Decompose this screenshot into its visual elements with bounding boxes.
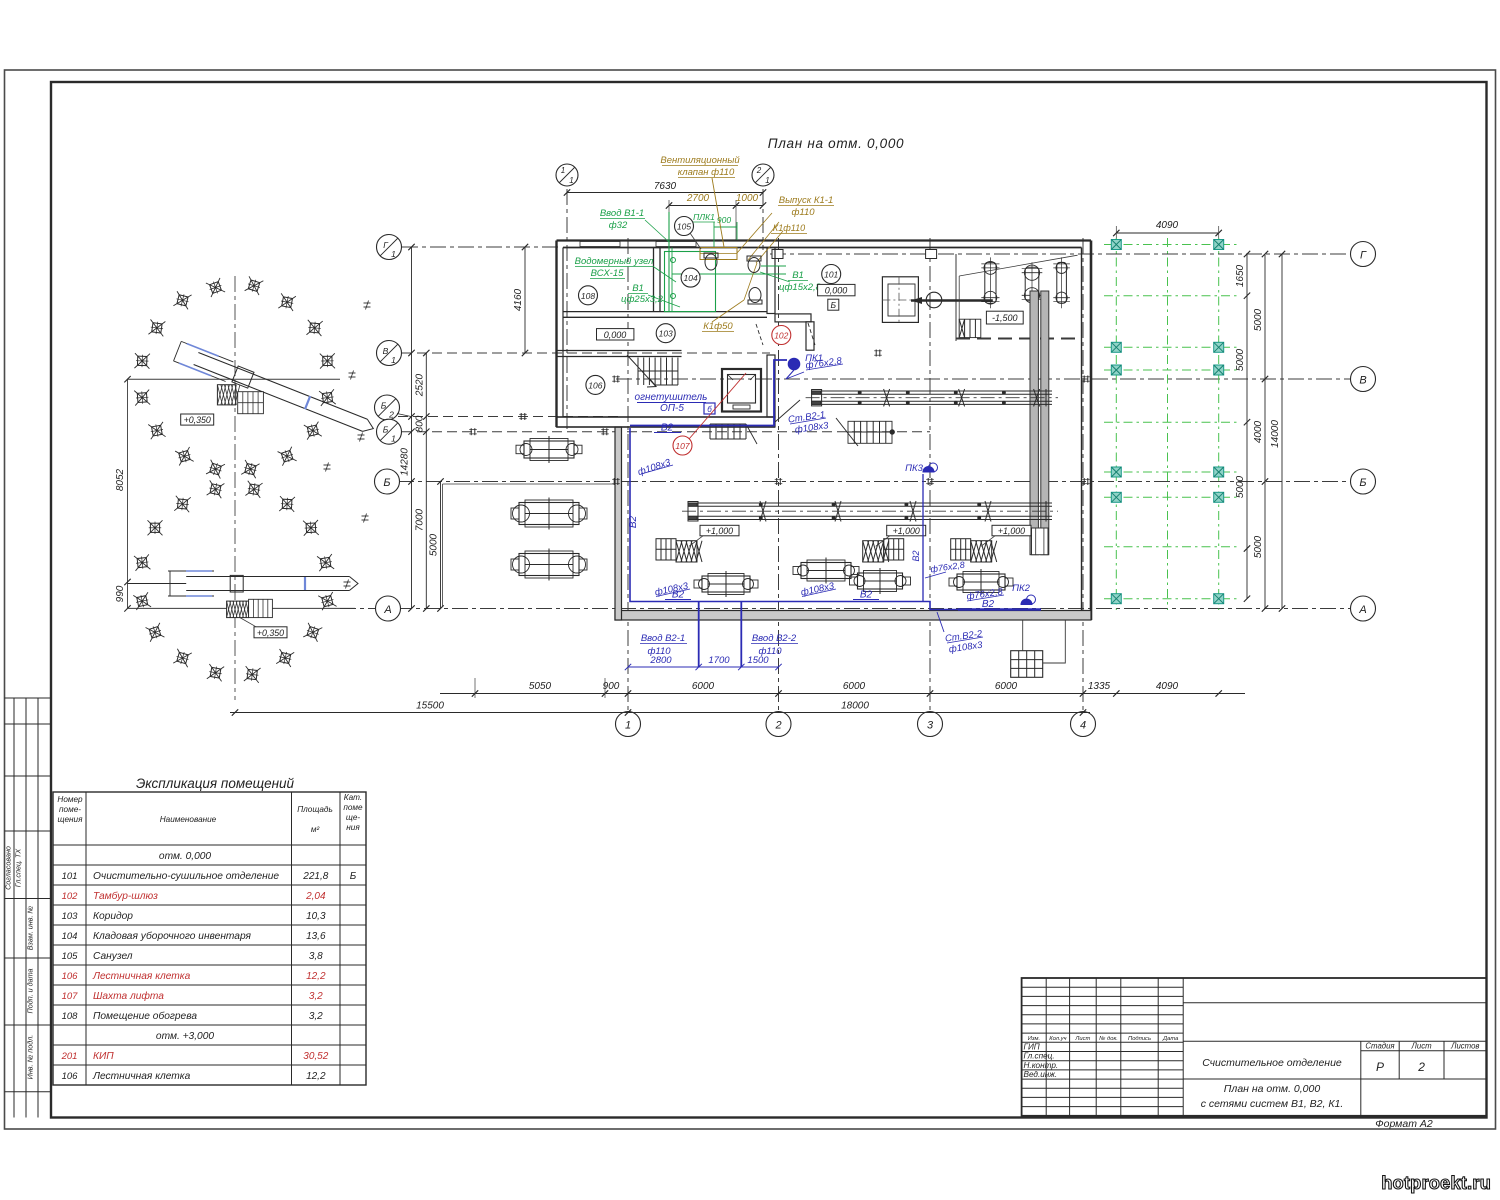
svg-text:221,8: 221,8	[302, 871, 328, 882]
svg-text:13,6: 13,6	[306, 931, 326, 942]
svg-text:Ввод В2-2: Ввод В2-2	[752, 633, 797, 644]
site boundary top	[128, 378, 341, 380]
svg-text:Выпуск К1-1: Выпуск К1-1	[779, 195, 834, 206]
svg-text:План на отм. 0,000: План на отм. 0,000	[1224, 1083, 1321, 1095]
svg-text:Подп. и дата: Подп. и дата	[26, 969, 35, 1014]
B2 entry Vvod B2-2	[740, 602, 742, 668]
svg-text:поме: поме	[343, 803, 363, 812]
elevator shaft 107	[722, 369, 761, 412]
svg-text:ВСХ-15: ВСХ-15	[591, 268, 625, 279]
svg-text:щения: щения	[58, 815, 84, 824]
svg-text:цф25х3,2: цф25х3,2	[621, 294, 664, 305]
svg-text:Инв. № подл.: Инв. № подл.	[26, 1035, 35, 1080]
category box Б	[828, 299, 839, 310]
svg-text:2520: 2520	[414, 373, 425, 397]
svg-text:2800: 2800	[649, 655, 672, 666]
svg-text:+0,350: +0,350	[257, 628, 284, 638]
PK3 hydrant	[923, 467, 934, 473]
interior wall 104/105 bottom	[563, 311, 767, 313]
apron edge line	[442, 484, 444, 607]
svg-text:Б: Б	[1359, 477, 1366, 489]
svg-text:6000: 6000	[843, 681, 866, 692]
svg-text:Кладовая уборочного инвентаря: Кладовая уборочного инвентаря	[93, 930, 252, 942]
svg-text:102: 102	[774, 331, 788, 341]
svg-text:Лестничная клетка: Лестничная клетка	[92, 1071, 191, 1082]
svg-text:106: 106	[62, 971, 79, 982]
horizontal axes	[770, 253, 1350, 255]
svg-text:-1,500: -1,500	[992, 313, 1018, 323]
svg-text:1: 1	[569, 176, 573, 185]
room circle 104	[681, 268, 700, 287]
svg-text:м²: м²	[311, 825, 320, 834]
conveyor band A (upper)	[806, 389, 1058, 406]
B1 green room outline	[665, 252, 716, 312]
top axis circles 1/1 2/1	[556, 164, 578, 186]
site center axis vertical	[234, 276, 236, 700]
svg-text:5000: 5000	[1235, 348, 1246, 371]
svg-text:Коридор: Коридор	[93, 911, 133, 922]
svg-text:Гл.спец.: Гл.спец.	[1024, 1052, 1055, 1061]
svg-text:План на отм. 0,000: План на отм. 0,000	[768, 136, 905, 151]
svg-text:Б: Б	[350, 871, 357, 882]
svg-text:1: 1	[391, 355, 396, 365]
svg-text:Счистительное отделение: Счистительное отделение	[1202, 1057, 1342, 1069]
machine: circle with arrow shaft	[926, 292, 942, 308]
svg-text:105: 105	[62, 951, 79, 962]
svg-text:ПК3: ПК3	[905, 463, 923, 474]
interior wall room 106 top	[557, 350, 682, 352]
svg-text:106: 106	[62, 1071, 79, 1082]
site hatched box bottom	[227, 601, 249, 618]
svg-text:Помещение обогрева: Помещение обогрева	[93, 1010, 197, 1022]
left attribute strip	[5, 698, 52, 1118]
svg-text:Подпись: Подпись	[1128, 1036, 1151, 1042]
building outer walls	[557, 239, 1092, 241]
room circle 105	[675, 217, 694, 236]
svg-text:1650: 1650	[1235, 264, 1246, 287]
tree symbols ring	[206, 278, 225, 297]
svg-text:поме-: поме-	[59, 805, 81, 814]
svg-text:Тамбур-шлюз: Тамбур-шлюз	[93, 890, 158, 902]
svg-text:ще-: ще-	[346, 813, 361, 822]
site boundary bottom	[128, 607, 356, 609]
svg-text:Наименование: Наименование	[160, 815, 217, 824]
stairwell 106 arrow	[627, 355, 656, 387]
svg-text:К1ф110: К1ф110	[773, 223, 805, 233]
svg-text:201: 201	[61, 1051, 78, 1062]
svg-text:4: 4	[1080, 720, 1086, 732]
mid-hall stair	[848, 421, 892, 443]
svg-text:Водомерный узел: Водомерный узел	[575, 256, 654, 267]
top dim 2700/1000	[669, 205, 763, 207]
svg-text:ОП-5: ОП-5	[660, 403, 684, 414]
svg-text:Лист: Лист	[1411, 1042, 1433, 1051]
inclined gallery conveyor	[174, 341, 378, 438]
svg-text:2700: 2700	[686, 193, 710, 204]
label +1.000 boxes	[700, 525, 739, 536]
platform boxes with hatch 2	[863, 539, 904, 562]
green grid node squares	[1111, 240, 1121, 250]
label +0.350 lower	[254, 627, 287, 638]
svg-text:104: 104	[62, 931, 78, 942]
svg-text:800: 800	[414, 415, 425, 432]
svg-text:Ввод В2-1: Ввод В2-1	[641, 633, 685, 644]
tambour wall stub vertical	[806, 322, 814, 350]
bottom dim chain 2 (15500/18000)	[230, 712, 1090, 714]
room circle 106	[586, 375, 605, 394]
right dim line 5000/4000/5000	[1264, 254, 1266, 609]
gallery stair grid	[238, 392, 264, 414]
B2 branch PK3	[922, 474, 924, 602]
svg-text:Ввод В1-1: Ввод В1-1	[600, 208, 644, 219]
svg-text:3,2: 3,2	[309, 1011, 323, 1022]
svg-text:2: 2	[756, 166, 762, 175]
svg-text:Н.контр.: Н.контр.	[1024, 1061, 1059, 1070]
machine: square apparatus	[882, 277, 918, 323]
svg-text:+1,000: +1,000	[706, 526, 733, 536]
svg-text:1700: 1700	[708, 655, 730, 666]
room circle 102	[772, 326, 791, 345]
svg-text:107: 107	[62, 991, 79, 1002]
bottom dim chain 1	[440, 693, 1245, 695]
svg-text:10,3: 10,3	[306, 911, 326, 922]
machine: vertical roller 2	[1025, 267, 1039, 301]
svg-text:Вед.инж.: Вед.инж.	[1024, 1070, 1058, 1079]
svg-text:4000: 4000	[1253, 420, 1264, 443]
room 105 leader	[690, 233, 701, 249]
room circle 103	[656, 324, 675, 343]
right dim line 1650/5000/5000	[1246, 254, 1248, 599]
svg-text:8052: 8052	[115, 468, 126, 491]
svg-text:7000: 7000	[414, 508, 425, 531]
svg-text:5050: 5050	[529, 681, 552, 692]
svg-text:2: 2	[774, 720, 781, 732]
svg-text:108: 108	[62, 1011, 79, 1022]
B2 entry Vvod B2-1	[698, 602, 700, 668]
conveyor band B (lower)	[682, 501, 1058, 522]
svg-text:+0,350: +0,350	[184, 415, 211, 425]
svg-text:с сетями систем В1, В2, К1.: с сетями систем В1, В2, К1.	[1201, 1098, 1344, 1110]
svg-text:4090: 4090	[1156, 681, 1179, 692]
svg-text:ПК2: ПК2	[1012, 583, 1030, 594]
explication table grid	[53, 792, 366, 1085]
svg-text:1500: 1500	[747, 655, 769, 666]
svg-text:101: 101	[62, 871, 78, 882]
svg-text:В: В	[383, 346, 389, 356]
svg-text:102: 102	[62, 891, 79, 902]
svg-text:В2: В2	[860, 590, 873, 601]
left dim line 5000	[440, 482, 442, 609]
svg-text:hotproekt.ru: hotproekt.ru	[1381, 1173, 1491, 1193]
machine: vertical roller 1	[985, 262, 996, 303]
svg-text:клапан ф110: клапан ф110	[678, 167, 735, 178]
svg-text:12,2: 12,2	[306, 1071, 326, 1082]
svg-text:ния: ния	[346, 823, 360, 832]
left axis circles	[377, 235, 402, 260]
stairwell 106 treads	[638, 358, 678, 386]
toilet 2	[747, 256, 761, 273]
svg-text:2,04: 2,04	[305, 891, 326, 902]
room circle 107	[673, 436, 692, 455]
vodomerny uzel symbol	[671, 258, 676, 263]
svg-text:Г: Г	[1360, 250, 1367, 262]
window openings top-left wall	[580, 242, 620, 247]
svg-text:В: В	[1359, 375, 1366, 387]
svg-text:1335: 1335	[1088, 681, 1111, 692]
vent leader	[712, 178, 724, 247]
horizontal conveyor site	[186, 576, 349, 578]
svg-text:15500: 15500	[416, 701, 444, 712]
svg-text:Санузел: Санузел	[93, 951, 133, 962]
room 107 red leader	[689, 373, 746, 439]
svg-text:КИП: КИП	[93, 1051, 114, 1062]
svg-text:В2: В2	[628, 515, 639, 528]
svg-text:Формат А2: Формат А2	[1375, 1118, 1433, 1130]
apron machines left	[516, 436, 582, 463]
svg-text:990: 990	[115, 585, 126, 602]
B1 pipes	[668, 212, 670, 311]
svg-text:103: 103	[659, 329, 673, 339]
svg-text:Б: Б	[383, 477, 390, 489]
svg-text:108: 108	[581, 291, 595, 301]
svg-text:Дата: Дата	[1162, 1036, 1179, 1042]
leader line to corner	[959, 255, 1077, 276]
label +0.350 upper	[181, 414, 214, 425]
svg-text:Р: Р	[1376, 1060, 1384, 1074]
svg-text:Изм.: Изм.	[1028, 1036, 1040, 1042]
svg-text:ф32: ф32	[609, 220, 628, 231]
tambour wall stub horizontal	[775, 314, 811, 322]
svg-text:1: 1	[765, 176, 769, 185]
svg-text:2: 2	[388, 410, 394, 420]
svg-text:7630: 7630	[654, 181, 677, 192]
toilet 1	[704, 253, 718, 270]
interior wall between 104 and 108	[653, 248, 655, 312]
left dim line 2520/800/7000	[425, 353, 427, 609]
svg-text:Вентиляционный: Вентиляционный	[660, 155, 740, 166]
extension lines bottom	[474, 678, 476, 698]
svg-text:К1ф50: К1ф50	[703, 321, 733, 332]
axis 1/1 and 2/1 vertical dashes	[566, 189, 568, 430]
label -1.500	[986, 311, 1023, 324]
svg-text:А: А	[383, 604, 391, 616]
svg-text:18000: 18000	[841, 701, 869, 712]
svg-text:5000: 5000	[1235, 475, 1246, 498]
svg-text:Б: Б	[381, 401, 387, 411]
svg-text:1: 1	[561, 166, 565, 175]
transformer below building	[1011, 651, 1043, 678]
svg-text:+1,000: +1,000	[998, 526, 1025, 536]
title block frame	[1022, 978, 1487, 1116]
svg-text:4090: 4090	[1156, 220, 1179, 231]
svg-text:ПЛК1: ПЛК1	[693, 212, 715, 222]
small survey crosses right of site	[364, 301, 371, 310]
svg-text:101: 101	[824, 270, 838, 280]
svg-text:Экспликация помещений: Экспликация помещений	[136, 776, 295, 791]
room circle 101	[822, 265, 841, 284]
PK1 hydrant	[788, 358, 800, 370]
svg-text:В2: В2	[911, 550, 921, 561]
svg-text:12,2: 12,2	[306, 971, 326, 982]
svg-text:ПК1: ПК1	[805, 353, 823, 364]
svg-text:А: А	[1358, 604, 1366, 616]
grey pipe rack columns	[1030, 291, 1038, 555]
svg-text:В1: В1	[792, 270, 804, 281]
svg-text:5000: 5000	[429, 533, 440, 556]
svg-text:Б: Б	[383, 425, 389, 435]
svg-text:30,52: 30,52	[303, 1051, 328, 1062]
tambour wall vertical	[767, 248, 775, 314]
svg-text:Кат.: Кат.	[344, 793, 362, 802]
sink	[748, 288, 762, 305]
svg-text:107: 107	[675, 441, 689, 451]
svg-text:отм. 0,000: отм. 0,000	[159, 851, 212, 862]
outside stair below annex	[710, 424, 746, 439]
svg-text:Очистительно-сушильное отделен: Очистительно-сушильное отделение	[93, 871, 279, 882]
svg-text:В2: В2	[982, 599, 995, 610]
svg-text:Номер: Номер	[57, 795, 83, 804]
right dim line 14000	[1281, 254, 1283, 609]
svg-text:Стадия: Стадия	[1365, 1042, 1395, 1051]
svg-text:ГИП: ГИП	[1024, 1043, 1040, 1052]
svg-text:6000: 6000	[995, 681, 1018, 692]
svg-text:Листов: Листов	[1450, 1042, 1479, 1051]
tambour lower wall piece	[767, 355, 775, 417]
svg-text:Лист: Лист	[1074, 1036, 1090, 1042]
machine: vertical roller 3	[1057, 262, 1067, 303]
svg-text:Б: Б	[831, 300, 837, 310]
svg-text:+1,000: +1,000	[893, 526, 920, 536]
svg-text:3,2: 3,2	[309, 991, 323, 1002]
green grid vertical lines	[1115, 238, 1117, 610]
svg-text:цф15х2,8: цф15х2,8	[779, 282, 822, 293]
svg-text:5000: 5000	[1253, 308, 1264, 331]
svg-text:Кол.уч: Кол.уч	[1049, 1036, 1066, 1042]
svg-text:№ док.: № док.	[1099, 1036, 1118, 1042]
B2 pipe main run	[630, 428, 960, 610]
machines bottom row	[694, 571, 758, 597]
column marks on axes	[469, 428, 477, 435]
svg-text:104: 104	[684, 273, 698, 283]
svg-text:В1: В1	[632, 283, 644, 294]
svg-text:14280: 14280	[400, 448, 411, 476]
svg-text:1: 1	[391, 249, 396, 259]
dim 4160	[524, 247, 526, 353]
svg-text:Гл.спец. ТХ: Гл.спец. ТХ	[14, 848, 23, 888]
svg-text:огнетушитель: огнетушитель	[635, 392, 708, 403]
svg-text:0,000: 0,000	[604, 330, 627, 340]
platform boxes with hatch 1	[656, 539, 702, 562]
svg-text:1000: 1000	[736, 193, 759, 204]
svg-text:Шахта лифта: Шахта лифта	[93, 990, 164, 1002]
svg-text:14000: 14000	[1270, 420, 1281, 448]
left dim line 14280	[411, 247, 413, 609]
top dim 7630	[567, 192, 763, 194]
svg-text:3: 3	[927, 720, 934, 732]
PK2 hydrant	[1021, 599, 1032, 605]
svg-text:106: 106	[588, 380, 602, 390]
svg-text:1: 1	[625, 720, 631, 732]
svg-text:5000: 5000	[1253, 535, 1264, 558]
svg-text:Согласовано: Согласовано	[4, 846, 13, 890]
door leaves tambour	[756, 324, 763, 345]
bottom axis circles 1-4	[616, 712, 641, 737]
svg-text:отм. +3,000: отм. +3,000	[156, 1031, 214, 1042]
blue dim 2800/1700/1500	[628, 666, 779, 668]
svg-text:3,8: 3,8	[309, 951, 323, 962]
svg-text:6000: 6000	[692, 681, 715, 692]
room circle 108	[579, 286, 598, 305]
elevation labels 0.000	[597, 329, 634, 340]
svg-text:4160: 4160	[513, 288, 524, 311]
pit boundary (-1.500 zone)	[955, 254, 957, 339]
svg-text:0,000: 0,000	[825, 286, 848, 296]
wall column marks on top wall	[772, 250, 783, 259]
svg-text:1: 1	[391, 434, 396, 444]
pit stair	[959, 319, 981, 337]
right axis circles	[1351, 242, 1376, 267]
partial axes Г/1 В/1 Б/2 Б/1	[402, 246, 560, 248]
svg-text:Лестничная клетка: Лестничная клетка	[92, 971, 191, 982]
svg-text:Площадь: Площадь	[297, 805, 333, 814]
K1 pipes near fixtures	[737, 213, 772, 253]
svg-text:105: 105	[677, 222, 691, 232]
site dim 8052/990	[127, 379, 129, 608]
green grid horizontal lines	[1104, 244, 1240, 246]
svg-text:Взам. инв. №: Взам. инв. №	[26, 906, 35, 951]
gallery hatched box	[217, 385, 235, 405]
B2 pipe upper run	[630, 360, 787, 426]
right top dim 4090	[1116, 232, 1218, 234]
svg-text:103: 103	[62, 911, 79, 922]
site stair bottom	[249, 599, 273, 617]
svg-text:ф110: ф110	[791, 207, 815, 218]
platform boxes with hatch 3	[951, 539, 997, 562]
svg-text:В2: В2	[661, 423, 674, 434]
vertical axes 1-4 dash-dot	[627, 238, 629, 711]
svg-text:2: 2	[1417, 1060, 1425, 1074]
